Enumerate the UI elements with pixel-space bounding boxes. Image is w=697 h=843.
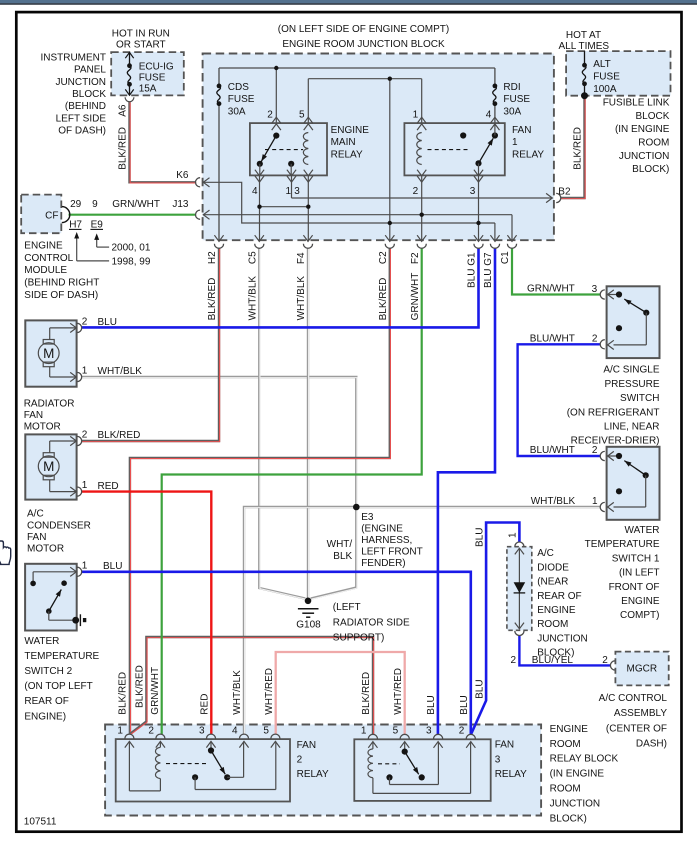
svg-text:BLU: BLU (474, 679, 485, 698)
svg-text:C2: C2 (378, 251, 389, 264)
svg-text:(ON REFRIGERANT: (ON REFRIGERANT (567, 407, 660, 418)
svg-text:ENGINE: ENGINE (550, 724, 589, 735)
svg-text:REAR OF: REAR OF (537, 591, 581, 602)
svg-text:2: 2 (82, 430, 88, 441)
svg-text:K6: K6 (176, 170, 189, 181)
svg-text:FAN: FAN (24, 410, 43, 421)
svg-text:3: 3 (495, 754, 501, 765)
svg-text:2: 2 (297, 755, 303, 766)
svg-text:107511: 107511 (24, 817, 57, 828)
svg-text:(NEAR: (NEAR (537, 577, 568, 588)
svg-text:2: 2 (510, 655, 516, 666)
svg-text:2: 2 (602, 655, 608, 666)
svg-text:2: 2 (459, 726, 465, 737)
svg-text:OF DASH): OF DASH) (58, 126, 106, 137)
svg-text:GRN/WHT: GRN/WHT (527, 284, 575, 295)
svg-text:(LEFT: (LEFT (333, 602, 361, 613)
svg-text:3: 3 (294, 186, 300, 197)
svg-text:1: 1 (592, 496, 598, 507)
svg-text:BLU: BLU (474, 528, 485, 547)
svg-text:BLOCK): BLOCK) (550, 813, 587, 824)
svg-text:JUNCTION: JUNCTION (537, 633, 588, 644)
svg-text:A/C CONTROL: A/C CONTROL (599, 693, 668, 704)
svg-text:F2: F2 (410, 252, 421, 264)
svg-text:3: 3 (592, 284, 598, 295)
svg-text:RELAY: RELAY (512, 150, 544, 161)
svg-text:HARNESS,: HARNESS, (361, 535, 412, 546)
svg-text:A/C SINGLE: A/C SINGLE (603, 365, 659, 376)
svg-text:GRN/WHT: GRN/WHT (410, 273, 421, 321)
svg-text:FAN: FAN (297, 740, 316, 751)
svg-text:15A: 15A (139, 84, 157, 95)
svg-text:ENGINE: ENGINE (537, 605, 576, 616)
svg-text:FAN: FAN (495, 740, 514, 751)
svg-text:E9: E9 (91, 219, 104, 230)
svg-text:(IN LEFT: (IN LEFT (619, 568, 660, 579)
svg-text:FENDER): FENDER) (361, 558, 405, 569)
svg-text:LINE, NEAR: LINE, NEAR (604, 422, 660, 433)
svg-text:RELAY: RELAY (495, 769, 527, 780)
svg-text:ENGINE): ENGINE) (24, 711, 66, 722)
svg-text:G108: G108 (296, 620, 321, 631)
svg-text:(IN ENGINE: (IN ENGINE (615, 124, 670, 135)
svg-text:LEFT SIDE: LEFT SIDE (56, 113, 107, 124)
svg-text:CONDENSER: CONDENSER (27, 520, 91, 531)
svg-text:1: 1 (285, 186, 291, 197)
svg-text:(BEHIND: (BEHIND (65, 101, 106, 112)
svg-text:RED: RED (98, 481, 119, 492)
svg-text:COMPT): COMPT) (620, 610, 659, 621)
svg-text:BLK/RED: BLK/RED (378, 278, 389, 321)
svg-text:ENGINE: ENGINE (621, 596, 660, 607)
svg-text:29: 29 (70, 199, 82, 210)
svg-text:2: 2 (148, 726, 154, 737)
svg-text:BLOCK: BLOCK (635, 111, 669, 122)
svg-text:DIODE: DIODE (537, 562, 569, 573)
svg-text:BLK/RED: BLK/RED (135, 665, 146, 708)
svg-text:5: 5 (263, 726, 269, 737)
svg-text:JUNCTION: JUNCTION (619, 151, 670, 162)
svg-text:WATER: WATER (625, 525, 660, 536)
svg-text:2: 2 (82, 316, 88, 327)
svg-text:LEFT FRONT: LEFT FRONT (361, 547, 422, 558)
svg-text:30A: 30A (228, 107, 246, 118)
svg-text:BLK/RED: BLK/RED (118, 672, 129, 715)
svg-text:RELAY: RELAY (331, 150, 363, 161)
svg-text:WATER: WATER (24, 636, 59, 647)
svg-text:5: 5 (393, 726, 399, 737)
svg-text:FAN: FAN (512, 125, 531, 136)
svg-text:CF: CF (45, 210, 58, 221)
svg-text:DASH): DASH) (636, 739, 667, 750)
svg-text:H2: H2 (207, 251, 218, 264)
svg-text:E3: E3 (361, 512, 374, 523)
svg-text:BLU: BLU (459, 695, 470, 714)
svg-text:3: 3 (470, 186, 476, 197)
svg-text:INSTRUMENT: INSTRUMENT (40, 52, 106, 63)
svg-text:WHT/RED: WHT/RED (264, 668, 275, 715)
svg-text:(BEHIND RIGHT: (BEHIND RIGHT (24, 278, 99, 289)
svg-text:BLK/RED: BLK/RED (207, 278, 218, 321)
svg-text:REAR OF: REAR OF (24, 696, 68, 707)
svg-text:A/C: A/C (27, 509, 44, 520)
svg-text:JUNCTION: JUNCTION (550, 798, 601, 809)
svg-text:RDI: RDI (503, 82, 520, 93)
svg-text:(IN ENGINE: (IN ENGINE (550, 769, 605, 780)
svg-text:ENGINE: ENGINE (24, 241, 63, 252)
svg-text:MOTOR: MOTOR (24, 422, 61, 433)
svg-text:9: 9 (92, 199, 98, 210)
svg-text:ROOM: ROOM (537, 619, 568, 630)
svg-text:BLU/YEL: BLU/YEL (532, 655, 574, 666)
svg-text:1: 1 (117, 726, 123, 737)
svg-text:BLK/RED: BLK/RED (361, 672, 372, 715)
svg-text:CDS: CDS (228, 82, 249, 93)
svg-text:ROOM: ROOM (638, 138, 669, 149)
svg-text:BLU/WHT: BLU/WHT (530, 333, 575, 344)
svg-text:RED: RED (200, 694, 211, 715)
svg-text:FUSE: FUSE (593, 72, 620, 83)
svg-text:100A: 100A (593, 84, 617, 95)
svg-text:PRESSURE: PRESSURE (604, 379, 659, 390)
svg-text:OR START: OR START (116, 39, 166, 50)
svg-text:1: 1 (82, 560, 88, 571)
svg-text:4: 4 (232, 726, 238, 737)
svg-text:WHT/BLK: WHT/BLK (296, 276, 307, 321)
svg-text:BLU G7: BLU G7 (483, 252, 494, 288)
svg-text:2000, 01: 2000, 01 (112, 242, 151, 253)
svg-text:1: 1 (508, 532, 519, 538)
svg-text:WHT/BLK: WHT/BLK (248, 276, 259, 321)
svg-text:GRN/WHT: GRN/WHT (112, 199, 160, 210)
svg-text:BLU G1: BLU G1 (467, 252, 478, 288)
svg-text:CONTROL: CONTROL (24, 253, 73, 264)
svg-text:5: 5 (299, 110, 305, 121)
svg-text:WHT/BLK: WHT/BLK (98, 366, 143, 377)
svg-text:FUSE: FUSE (503, 94, 530, 105)
svg-text:1998, 99: 1998, 99 (112, 256, 151, 267)
svg-text:JUNCTION: JUNCTION (55, 77, 106, 88)
svg-text:1: 1 (82, 366, 88, 377)
svg-text:M: M (43, 459, 54, 474)
svg-text:BLK: BLK (333, 551, 352, 562)
svg-text:2: 2 (413, 186, 419, 197)
svg-text:4: 4 (486, 110, 492, 121)
svg-text:4: 4 (252, 186, 258, 197)
svg-text:(CENTER OF: (CENTER OF (606, 723, 667, 734)
svg-text:1: 1 (413, 110, 419, 121)
svg-text:ECU-IG: ECU-IG (139, 62, 174, 73)
svg-text:FUSE: FUSE (228, 94, 255, 105)
svg-text:FRONT OF: FRONT OF (609, 582, 660, 593)
svg-text:ROOM: ROOM (550, 739, 581, 750)
svg-text:ALT: ALT (593, 59, 611, 70)
svg-text:HOT IN RUN: HOT IN RUN (112, 28, 170, 39)
svg-text:3: 3 (426, 726, 432, 737)
svg-text:1: 1 (82, 480, 88, 491)
svg-text:HOT AT: HOT AT (566, 30, 601, 41)
svg-text:FUSE: FUSE (139, 73, 166, 84)
svg-text:WHT/BLK: WHT/BLK (232, 670, 243, 715)
svg-text:TEMPERATURE: TEMPERATURE (24, 651, 99, 662)
svg-text:WHT/RED: WHT/RED (393, 668, 404, 715)
svg-text:BLU/WHT: BLU/WHT (530, 445, 575, 456)
svg-text:ASSEMBLY: ASSEMBLY (614, 708, 667, 719)
svg-text:2: 2 (592, 445, 598, 456)
svg-text:1: 1 (512, 137, 518, 148)
svg-text:SWITCH 2: SWITCH 2 (24, 666, 72, 677)
svg-text:RADIATOR: RADIATOR (24, 398, 75, 409)
svg-text:RELAY BLOCK: RELAY BLOCK (550, 754, 619, 765)
svg-text:J13: J13 (172, 199, 189, 210)
svg-text:(ENGINE: (ENGINE (361, 524, 403, 535)
svg-text:H7: H7 (69, 219, 82, 230)
svg-text:WHT/: WHT/ (327, 539, 353, 550)
svg-text:SUPPORT): SUPPORT) (333, 632, 385, 643)
svg-text:SWITCH: SWITCH (620, 393, 659, 404)
svg-text:B2: B2 (558, 186, 571, 197)
svg-text:SIDE OF DASH): SIDE OF DASH) (24, 290, 98, 301)
svg-text:A/C: A/C (537, 548, 554, 559)
svg-text:ALL TIMES: ALL TIMES (559, 41, 610, 52)
svg-text:ENGINE: ENGINE (331, 125, 370, 136)
svg-text:1: 1 (361, 726, 367, 737)
svg-text:PANEL: PANEL (74, 65, 106, 76)
svg-text:MOTOR: MOTOR (27, 544, 64, 555)
svg-text:(ON TOP LEFT: (ON TOP LEFT (24, 681, 92, 692)
svg-text:MGCR: MGCR (627, 664, 658, 675)
svg-text:BLK/RED: BLK/RED (118, 127, 129, 170)
svg-text:F4: F4 (296, 252, 307, 264)
svg-text:BLU: BLU (98, 317, 117, 328)
svg-text:M: M (43, 346, 54, 361)
svg-text:BLK/RED: BLK/RED (98, 430, 141, 441)
svg-text:ENGINE ROOM JUNCTION BLOCK: ENGINE ROOM JUNCTION BLOCK (282, 39, 445, 50)
svg-text:RECEIVER-DRIER): RECEIVER-DRIER) (571, 436, 660, 447)
svg-text:(ON LEFT SIDE OF ENGINE COMPT): (ON LEFT SIDE OF ENGINE COMPT) (278, 24, 450, 35)
svg-text:BLU: BLU (426, 695, 437, 714)
svg-text:A6: A6 (118, 104, 129, 117)
svg-text:MODULE: MODULE (24, 265, 67, 276)
svg-text:BLK/RED: BLK/RED (573, 127, 584, 170)
svg-text:RELAY: RELAY (297, 769, 329, 780)
svg-text:BLU: BLU (103, 561, 122, 572)
svg-text:BLOCK: BLOCK (72, 89, 106, 100)
svg-text:SWITCH 1: SWITCH 1 (612, 553, 660, 564)
svg-text:2: 2 (267, 110, 273, 121)
svg-text:RADIATOR SIDE: RADIATOR SIDE (333, 617, 410, 628)
svg-text:C5: C5 (248, 251, 259, 264)
svg-text:3: 3 (199, 726, 205, 737)
svg-text:FAN: FAN (27, 532, 46, 543)
svg-text:30A: 30A (503, 107, 521, 118)
svg-text:2: 2 (592, 334, 598, 345)
svg-text:TEMPERATURE: TEMPERATURE (585, 539, 660, 550)
svg-text:BLOCK): BLOCK) (632, 164, 669, 175)
svg-text:ROOM: ROOM (550, 784, 581, 795)
svg-text:WHT/BLK: WHT/BLK (531, 496, 576, 507)
svg-text:MAIN: MAIN (331, 137, 356, 148)
svg-text:C1: C1 (500, 251, 511, 264)
svg-text:GRN/WHT: GRN/WHT (150, 667, 161, 715)
svg-text:FUSIBLE LINK: FUSIBLE LINK (603, 98, 670, 109)
